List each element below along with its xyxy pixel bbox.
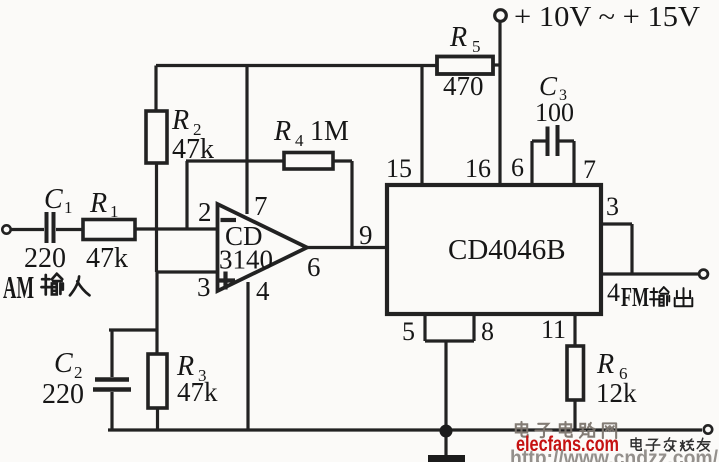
label R3 [176, 351, 207, 385]
power terminal [495, 10, 507, 22]
svg-text:AM: AM [3, 269, 34, 305]
svg-text:11: 11 [541, 315, 566, 344]
wire C2 top connector [109, 330, 157, 377]
svg-text:220: 220 [42, 379, 84, 410]
wire IC pin11 to R6 [573, 314, 576, 346]
op-amp U1 CD3140 triangle [218, 204, 308, 291]
svg-text:CD4046B: CD4046B [448, 234, 566, 266]
svg-text:12k: 12k [596, 378, 637, 408]
svg-text:1: 1 [110, 202, 119, 221]
wire feedback to R4 [186, 159, 284, 162]
wire R2 bottom to node [155, 163, 158, 272]
op-amp plus sign [216, 272, 235, 290]
svg-text:8: 8 [481, 317, 494, 346]
wire op-amp pin7 supply [245, 66, 248, 215]
label FM output [621, 282, 692, 312]
svg-text:4: 4 [607, 278, 620, 307]
svg-text:R: R [89, 188, 107, 219]
svg-text:16: 16 [465, 154, 491, 183]
wire R6 bottom to ground rail [573, 400, 576, 430]
svg-text:9: 9 [359, 220, 373, 250]
IC CD4046B box [387, 185, 601, 314]
wire IC pin15 [420, 66, 423, 185]
svg-text:7: 7 [583, 155, 596, 184]
label R2 [171, 105, 202, 139]
resistor R2 [146, 111, 167, 163]
wire op-amp output to IC pin9 [306, 246, 386, 249]
resistor R4 [284, 153, 333, 170]
label CD3140 [219, 221, 273, 275]
label C2 [54, 348, 83, 382]
svg-text:http://www.cndzz.com/: http://www.cndzz.com/ [510, 447, 718, 462]
svg-text:4: 4 [256, 276, 270, 306]
label R5 [449, 22, 481, 56]
wire IC pin3 stub [601, 224, 632, 274]
wire top rail [156, 64, 437, 67]
svg-text:1M: 1M [310, 116, 349, 147]
svg-text:47k: 47k [172, 134, 214, 165]
input terminal [2, 225, 10, 233]
label R6 [596, 349, 628, 383]
resistor R5 [437, 57, 493, 75]
label C1 [44, 184, 73, 217]
capacitor C1 [47, 212, 54, 243]
svg-text:6: 6 [307, 252, 321, 282]
svg-text:6: 6 [511, 153, 524, 182]
wire R5 right to power line [493, 63, 499, 66]
svg-text:1: 1 [64, 198, 73, 217]
label R1 [89, 188, 119, 221]
resistor R1 [83, 220, 135, 240]
wire IC pin5 stub [423, 314, 426, 341]
wire IC pin7 stub [559, 141, 574, 184]
svg-text:R: R [273, 116, 291, 147]
wire input to C1 [11, 228, 44, 231]
watermark dianzidianluwang gray [516, 422, 616, 438]
resistor R3 [148, 354, 167, 408]
wire IC pin6 stub [532, 141, 546, 184]
svg-text:100: 100 [535, 98, 574, 127]
svg-text:R: R [596, 349, 614, 380]
wire pin5-pin8 connector [425, 339, 474, 342]
wire power line to IC pin16 [498, 21, 501, 184]
wire C1 to R1 [56, 228, 82, 231]
svg-text:470: 470 [443, 71, 484, 101]
svg-text:FM: FM [621, 282, 649, 312]
svg-text:C: C [539, 71, 558, 101]
label AM input [3, 269, 89, 305]
wire R1 to op-amp pin2 [135, 227, 217, 230]
node junction dot at ground [440, 425, 453, 438]
watermark dianzifashaoyou dark [631, 438, 710, 451]
ground symbol bar [428, 455, 465, 462]
op-amp minus sign [221, 218, 237, 222]
wire ground rail [108, 428, 702, 431]
capacitor C3 [548, 125, 558, 156]
label R4 [273, 116, 304, 150]
svg-text:C: C [44, 184, 63, 215]
svg-text:3140: 3140 [219, 245, 273, 275]
wire IC pin8 stub [472, 314, 475, 341]
svg-text:5: 5 [402, 317, 415, 346]
svg-text:47k: 47k [177, 377, 218, 407]
svg-text:7: 7 [254, 191, 268, 221]
resistor R6 [567, 346, 584, 400]
svg-text:C: C [54, 348, 73, 379]
wire pin3 [157, 270, 218, 273]
svg-text:3: 3 [197, 272, 211, 302]
wire R3 bottom to ground rail [156, 408, 159, 430]
svg-text:R: R [449, 22, 467, 53]
ground symbol stem [444, 431, 447, 455]
svg-text:+ 10V ~ + 15V: + 10V ~ + 15V [514, 1, 700, 33]
wire IC pin4 to FM output [601, 272, 699, 275]
wire op-amp pin4 to ground rail [246, 282, 249, 430]
svg-text:15: 15 [386, 154, 412, 183]
label C3 [539, 71, 567, 104]
wire node to R3 [155, 272, 158, 354]
wire to ground junction [444, 341, 447, 430]
svg-text:2: 2 [198, 197, 212, 227]
svg-text:5: 5 [472, 37, 481, 56]
svg-text:3: 3 [606, 192, 619, 221]
svg-text:4: 4 [295, 131, 304, 150]
svg-text:47k: 47k [86, 243, 128, 274]
svg-text:R: R [171, 105, 189, 136]
wire R2 top segment [154, 66, 157, 112]
terminal at ground rail right end [704, 425, 712, 433]
wire C2 bottom [110, 392, 113, 430]
capacitor C2 [93, 380, 131, 390]
wire R4 right [333, 161, 352, 248]
wire feedback vertical left [185, 161, 188, 229]
FM output terminal [699, 270, 708, 279]
